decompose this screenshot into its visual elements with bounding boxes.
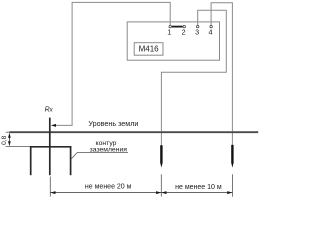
svg-text:не менее 10 м: не менее 10 м — [175, 184, 222, 191]
label контур заземления — [90, 140, 128, 153]
0,8 dimension line with arrows — [8, 133, 11, 146]
Rx electrode (middle earth rod) — [49, 118, 51, 176]
svg-text:заземления: заземления — [90, 146, 128, 153]
dimension line не менее 20 м — [50, 191, 161, 194]
terminal 4 — [210, 25, 212, 27]
dimension extension line below Rx electrode — [49, 177, 51, 197]
svg-text:М416: М416 — [139, 45, 160, 54]
contour left earth rod — [30, 146, 32, 175]
dimension extension line below probe 1 — [160, 174, 162, 196]
dimension line не менее 10 м — [161, 191, 232, 194]
wire terminal 3 to probe 1 — [161, 10, 226, 145]
probe 1 (potential electrode) — [160, 145, 162, 167]
svg-text:не менее 20 м: не менее 20 м — [85, 184, 132, 191]
wire terminal 4 to probe 2 — [211, 3, 232, 145]
svg-text:4: 4 — [209, 28, 213, 37]
terminal 2 — [183, 25, 185, 27]
contour right earth rod — [70, 146, 72, 175]
ground level line — [6, 131, 259, 133]
svg-text:Уровень земли: Уровень земли — [88, 119, 138, 128]
svg-text:3: 3 — [195, 28, 199, 37]
terminal 3 — [197, 25, 199, 27]
arrowhead at Rx electrode — [51, 124, 56, 127]
grounding contour horizontal bar — [30, 146, 71, 148]
device U1 M416 outer box — [127, 22, 219, 60]
M416 label box — [134, 43, 163, 56]
svg-text:1: 1 — [167, 28, 171, 37]
svg-text:Rx: Rx — [45, 106, 54, 113]
leader line to contour label — [72, 153, 129, 159]
dimension extension line below probe 2 — [231, 174, 233, 196]
0,8 dimension extension line (lower) — [6, 146, 30, 148]
svg-text:0,8: 0,8 — [1, 135, 8, 144]
probe 2 (current electrode) — [231, 145, 233, 168]
terminal 1 — [169, 25, 171, 27]
wire terminal 1 to Rx electrode arrow — [53, 2, 170, 125]
svg-text:2: 2 — [182, 28, 186, 37]
jumper between terminals 1 and 2 — [172, 26, 183, 28]
